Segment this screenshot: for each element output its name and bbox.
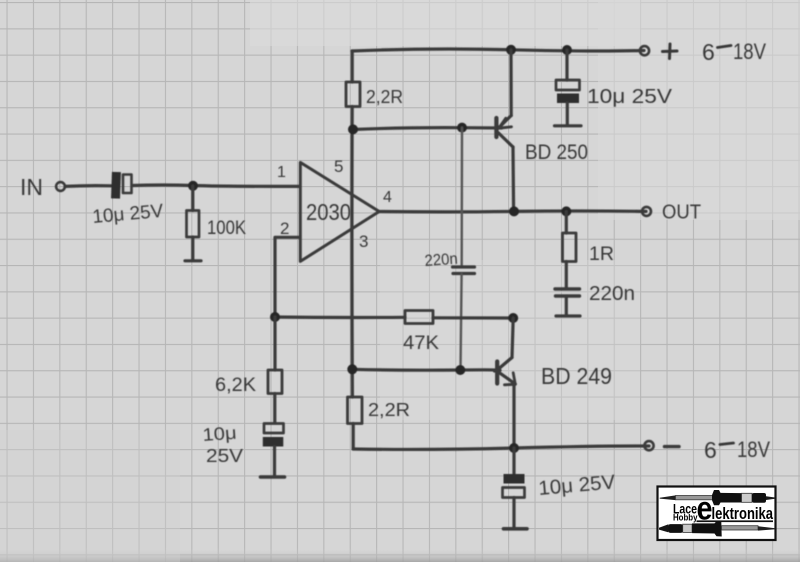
capacitor C 220n middle: [453, 267, 475, 274]
svg-text:2,2R: 2,2R: [368, 400, 410, 420]
svg-text:6,2K: 6,2K: [215, 375, 256, 396]
node OUT rail / R 1R: [561, 206, 571, 216]
svg-text:3: 3: [359, 232, 368, 251]
svg-text:IN: IN: [20, 174, 43, 200]
bottom supply rail: [353, 446, 649, 449]
svg-text:BD 249: BD 249: [541, 363, 612, 389]
svg-text:5: 5: [334, 157, 343, 176]
resistor R 1R: [563, 233, 577, 262]
wire 100K to end bar: [191, 237, 194, 260]
terminal +V: [640, 46, 649, 55]
logo soldering iron top: [660, 490, 775, 505]
wire pin2 stub: [275, 237, 300, 317]
wire BD249 emitter down to bottom rail: [512, 385, 515, 448]
svg-text:lektronika: lektronika: [712, 504, 774, 523]
wire feedback 47K line: [275, 315, 405, 319]
wire pin2 chain down to 6,2K: [273, 317, 276, 370]
minus sign at -V terminal: [665, 445, 680, 448]
svg-text:BD 250: BD 250: [525, 141, 588, 164]
wire bottom rail to C 10u bottom: [512, 448, 515, 474]
node feedback / 220n: [455, 365, 465, 375]
wire 1R to C 220n: [565, 262, 568, 289]
svg-text:OUT: OUT: [662, 202, 701, 224]
wire 6,2K to C 10u left: [273, 394, 276, 424]
wire BD250 base line: [353, 128, 502, 130]
node top rail / BD250 emitter: [506, 45, 516, 55]
wire junction down to R 100K: [191, 186, 194, 211]
node OUT rail / BD collector: [509, 206, 519, 216]
svg-text:1: 1: [277, 164, 286, 181]
node pin3 line: [347, 364, 357, 374]
svg-text:25V: 25V: [206, 446, 243, 466]
svg-text:10μ: 10μ: [202, 423, 237, 445]
output rail: [379, 209, 646, 213]
svg-text:100K: 100K: [207, 218, 246, 239]
wire C 10u top-right from rail: [565, 50, 568, 80]
capacitor C 220n right: [555, 289, 580, 316]
wire pin5 line: top rail down through 2,2R to bottom rail corner: [351, 51, 354, 82]
resistor R 2,2R bottom: [348, 397, 363, 424]
logo Lace Hobby Elektronika: [658, 487, 776, 541]
capacitor C 10u 25V bottom: [503, 474, 528, 529]
node 47K / collector line: [508, 313, 518, 323]
svg-text:18V: 18V: [737, 437, 770, 462]
capacitor C 10u 25V left: [261, 424, 285, 478]
svg-text:18V: 18V: [733, 39, 766, 64]
wire C 220n mid vertical: [461, 128, 464, 266]
terminal -V: [644, 441, 653, 450]
top supply rail: [352, 49, 644, 51]
node bottom rail / C 10u: [509, 443, 519, 453]
node pin2 / 47K: [270, 312, 280, 322]
svg-text:10μ 25V: 10μ 25V: [587, 86, 673, 108]
transistor Q1 BD250: [496, 116, 513, 148]
svg-text:6: 6: [702, 39, 715, 65]
wire 2,2R down through triangle to lower 2,2R: [350, 107, 354, 398]
svg-text:2: 2: [280, 219, 289, 238]
terminal IN: [56, 182, 65, 191]
capacitor C-in 10u 25V: [111, 172, 131, 199]
wire lower 2,2R to bottom rail corner: [352, 424, 355, 450]
svg-text:4: 4: [383, 189, 392, 206]
node top rail / C 10u: [562, 45, 572, 55]
label +: [663, 44, 678, 59]
op-amp U1 2030 triangle: [300, 162, 379, 261]
node base line / C 220n: [457, 123, 467, 133]
wire OUT rail to R 1R: [565, 212, 568, 234]
resistor R 47K: [405, 311, 433, 324]
svg-text:1R: 1R: [589, 244, 614, 265]
svg-text:2,2R: 2,2R: [366, 87, 403, 107]
resistor R 6,2K: [268, 370, 282, 394]
transistor Q2 BD249: [497, 358, 515, 385]
wire pin3 feedback line to BD249 base: [352, 369, 500, 371]
svg-text:2030: 2030: [306, 199, 351, 225]
wire BD250 emitter up to rail: [509, 50, 512, 116]
resistor R 2,2R top: [346, 82, 360, 107]
wire 47K to collector line: [433, 316, 513, 319]
capacitor C 10u 25V top-right: [555, 80, 582, 126]
svg-text:220n: 220n: [589, 283, 635, 305]
node input junction: [188, 181, 198, 191]
resistor R 100K: [187, 211, 200, 238]
terminal OUT: [642, 207, 651, 216]
svg-text:Hobby: Hobby: [673, 512, 698, 522]
svg-text:47K: 47K: [403, 332, 439, 354]
wire C-in to opamp pin1: [132, 185, 300, 186]
node 2,2R line / base line: [348, 124, 358, 134]
svg-text:6: 6: [704, 437, 717, 463]
wire IN to C-in: [65, 184, 111, 188]
svg-text:220n: 220n: [424, 251, 458, 270]
wire C 220n middle to lower feedback line: [461, 274, 462, 370]
logo soldering iron bottom: [659, 521, 775, 536]
ground end bar under 100K: [185, 259, 201, 262]
logo text: [673, 490, 773, 527]
wire BD249 collector up to 47K node: [512, 318, 513, 358]
wire BD250 collector down to OUT rail: [511, 147, 515, 212]
